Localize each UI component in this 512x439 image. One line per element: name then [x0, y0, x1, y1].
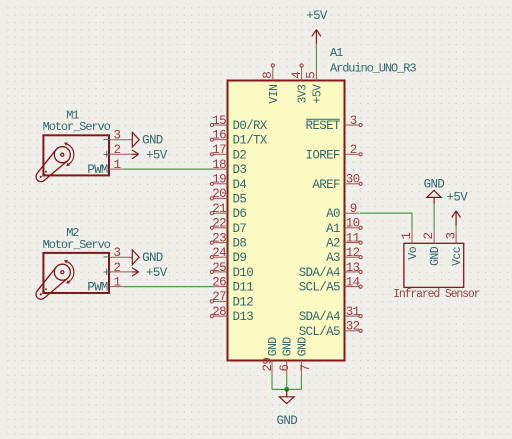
- pin 20 (D5) left side: [210, 187, 246, 206]
- svg-text:D8: D8: [233, 237, 247, 251]
- pin 24 (D9) left side: [210, 246, 246, 265]
- svg-text:+: +: [103, 266, 110, 280]
- pin 3 (-) of M1: [103, 129, 132, 148]
- svg-text:D13: D13: [233, 310, 254, 324]
- svg-text:D6: D6: [233, 207, 247, 221]
- svg-text:Vo: Vo: [407, 246, 420, 259]
- svg-text:15: 15: [212, 114, 226, 128]
- svg-text:VIN: VIN: [268, 85, 281, 104]
- servo arm screw dots (M1): [40, 171, 47, 178]
- svg-text:A1: A1: [326, 222, 340, 236]
- pin 31 (SDA/A4) right side: [299, 305, 363, 324]
- power symbol GND (bottom): [277, 389, 298, 428]
- svg-text:14: 14: [346, 275, 360, 289]
- pin 19 (D4) left side: [210, 173, 246, 192]
- pin 10 (A1) right side: [326, 217, 362, 236]
- svg-text:31: 31: [346, 305, 360, 319]
- pin 15 (D0/RX) left side: [210, 114, 268, 133]
- pin 8 (VIN) top side: [261, 64, 281, 104]
- svg-text:27: 27: [212, 290, 226, 304]
- svg-text:3: 3: [114, 129, 121, 143]
- wire +5V to pin 5: [315, 44, 317, 67]
- motor servo M2 body: [43, 253, 109, 293]
- power symbol +5V at M2 pin 2: [132, 266, 168, 280]
- svg-text:20: 20: [212, 187, 226, 201]
- svg-text:D3: D3: [233, 163, 247, 177]
- power symbol GND at sensor pin 2: [424, 177, 445, 204]
- pin 3 (RESET) right side: [306, 114, 363, 133]
- pin 25 (D10) left side: [210, 261, 253, 280]
- svg-text:GND: GND: [296, 337, 309, 357]
- svg-text:IOREF: IOREF: [306, 148, 340, 162]
- svg-text:Motor_Servo: Motor_Servo: [43, 238, 111, 252]
- svg-text:SCL/A5: SCL/A5: [299, 281, 340, 295]
- svg-text:RESET: RESET: [306, 119, 341, 133]
- pin 3 (-) of M2: [103, 246, 132, 265]
- svg-text:2: 2: [422, 233, 436, 240]
- svg-text:Arduino_UNO_R3: Arduino_UNO_R3: [330, 61, 416, 75]
- power symbol +5V at sensor pin 3: [447, 191, 469, 226]
- pin 1 (PWM) of M1: [87, 158, 124, 177]
- pin 2 (GND) of sensor: [422, 230, 442, 266]
- pin 6 (GND) bottom side: [278, 337, 295, 375]
- svg-text:PWM: PWM: [87, 163, 108, 177]
- svg-text:A0: A0: [326, 207, 340, 221]
- svg-text:12: 12: [346, 246, 360, 260]
- svg-text:2: 2: [350, 143, 357, 157]
- svg-text:19: 19: [212, 173, 226, 187]
- servo horn hub dot (M1): [61, 153, 64, 156]
- svg-text:GND: GND: [142, 134, 163, 148]
- svg-text:29: 29: [261, 358, 275, 372]
- svg-text:30: 30: [346, 173, 360, 187]
- servo arm (M2): [36, 267, 68, 299]
- svg-text:11: 11: [346, 231, 360, 245]
- pin 18 (D3) left side: [212, 158, 246, 177]
- svg-text:8: 8: [261, 72, 275, 79]
- pin 22 (D7) left side: [210, 217, 246, 236]
- svg-text:26: 26: [212, 275, 226, 289]
- svg-text:25: 25: [212, 261, 226, 275]
- svg-text:GND: GND: [282, 337, 295, 357]
- svg-text:GND: GND: [429, 246, 442, 266]
- wire M2 PWM to D11: [124, 286, 214, 288]
- svg-text:SDA/A4: SDA/A4: [299, 266, 340, 280]
- svg-text:2: 2: [114, 143, 121, 157]
- svg-text:+5V: +5V: [146, 266, 168, 280]
- svg-text:D11: D11: [233, 281, 254, 295]
- svg-text:Infrared Sensor: Infrared Sensor: [393, 288, 480, 301]
- wire GND to sensor pin 2: [433, 204, 435, 230]
- svg-text:GND: GND: [142, 251, 163, 265]
- pin 28 (D13) left side: [210, 305, 253, 324]
- pin 2 (+) of M1: [103, 143, 132, 162]
- svg-text:Vcc: Vcc: [451, 246, 464, 266]
- infrared sensor body: [404, 243, 464, 287]
- svg-text:A1: A1: [330, 46, 343, 60]
- svg-text:−: −: [103, 134, 110, 148]
- svg-text:Motor_Servo: Motor_Servo: [43, 120, 111, 134]
- svg-text:1: 1: [114, 158, 121, 172]
- svg-text:6: 6: [278, 365, 292, 372]
- svg-text:3: 3: [114, 246, 121, 260]
- svg-text:1: 1: [400, 233, 414, 240]
- svg-text:21: 21: [212, 202, 226, 216]
- servo horn circle (M1): [54, 147, 70, 163]
- servo horn hub dot (M2): [61, 271, 64, 274]
- svg-text:24: 24: [212, 246, 226, 260]
- power symbol +5V at M1 pin 2: [132, 148, 168, 162]
- pin 3 (Vcc) of sensor: [444, 230, 464, 266]
- IC A1 Arduino_UNO_R3 body: [228, 81, 345, 361]
- svg-text:GND: GND: [424, 177, 445, 191]
- pin 12 (A3) right side: [326, 246, 362, 265]
- wire GND bus horizontal: [272, 388, 301, 390]
- svg-text:13: 13: [346, 261, 360, 275]
- svg-text:10: 10: [346, 217, 360, 231]
- svg-text:SCL/A5: SCL/A5: [299, 325, 340, 339]
- svg-text:GND: GND: [267, 337, 280, 357]
- svg-text:A3: A3: [326, 251, 340, 265]
- wire M1 PWM to D3: [124, 168, 214, 170]
- pin 1 (PWM) of M2: [87, 275, 124, 294]
- svg-text:D5: D5: [233, 192, 247, 206]
- svg-text:PWM: PWM: [87, 281, 108, 295]
- svg-text:28: 28: [212, 305, 226, 319]
- pin 4 (3V3) top side: [290, 64, 310, 104]
- svg-text:GND: GND: [277, 414, 298, 428]
- svg-text:+: +: [103, 148, 110, 162]
- svg-text:23: 23: [212, 231, 226, 245]
- svg-text:1: 1: [114, 275, 121, 289]
- svg-text:5: 5: [305, 72, 319, 79]
- svg-text:22: 22: [212, 217, 226, 231]
- pin 17 (D2) left side: [210, 143, 246, 162]
- pin 27 (D12) left side: [210, 290, 253, 309]
- svg-text:D10: D10: [233, 266, 254, 280]
- svg-text:SDA/A4: SDA/A4: [299, 310, 340, 324]
- svg-text:D7: D7: [233, 222, 247, 236]
- svg-text:2: 2: [114, 261, 121, 275]
- servo rotation arc (M1): [64, 142, 74, 166]
- svg-text:+5V: +5V: [311, 84, 324, 104]
- junction GND node: [284, 387, 289, 392]
- pin 29 (GND) bottom side: [261, 337, 280, 375]
- svg-text:AREF: AREF: [312, 178, 340, 192]
- pin 7 (GND) bottom side: [296, 337, 312, 375]
- svg-text:D2: D2: [233, 148, 247, 162]
- pin 1 (Vo) of sensor: [400, 230, 420, 260]
- svg-text:A2: A2: [326, 237, 340, 251]
- wire GND bus right (pin 7): [300, 375, 302, 390]
- pin 5 (+5V) top side: [305, 67, 325, 104]
- svg-text:+5V: +5V: [146, 148, 168, 162]
- svg-text:+5V: +5V: [447, 191, 469, 205]
- servo horn circle (M2): [54, 264, 70, 280]
- svg-text:32: 32: [346, 320, 360, 334]
- power symbol GND at M1 pin 3: [132, 132, 163, 147]
- svg-text:D0/RX: D0/RX: [233, 119, 268, 133]
- svg-text:3V3: 3V3: [297, 84, 310, 104]
- pin 32 (SCL/A5) right side: [299, 320, 363, 339]
- svg-text:+5V: +5V: [306, 9, 328, 23]
- pin 9 (A0) right side: [326, 202, 359, 221]
- svg-text:D12: D12: [233, 295, 254, 309]
- power symbol GND at M2 pin 3: [132, 250, 163, 265]
- servo rotation arc (M2): [64, 260, 74, 284]
- svg-text:7: 7: [299, 365, 313, 372]
- svg-text:D4: D4: [233, 178, 247, 192]
- pin 2 (IOREF) right side: [306, 143, 363, 162]
- servo arm screw dots (M2): [40, 288, 47, 295]
- pin 26 (D11) left side: [212, 275, 253, 294]
- wire A0 to sensor Vo: [360, 213, 412, 230]
- pin 23 (D8) left side: [210, 231, 246, 250]
- wire +5V to sensor pin 3: [455, 226, 457, 230]
- svg-text:D1/TX: D1/TX: [233, 134, 268, 148]
- pin 30 (AREF) right side: [312, 173, 362, 192]
- wire GND bus left (pin 29): [271, 375, 273, 390]
- svg-text:4: 4: [290, 72, 304, 79]
- svg-text:18: 18: [212, 158, 226, 172]
- pin 14 (SCL/A5) right side: [299, 275, 363, 294]
- pin 16 (D1/TX) left side: [210, 129, 268, 148]
- pin 21 (D6) left side: [210, 202, 246, 221]
- svg-text:3: 3: [444, 233, 458, 240]
- svg-text:16: 16: [212, 129, 226, 143]
- svg-text:3: 3: [350, 114, 357, 128]
- pin 2 (+) of M2: [103, 261, 132, 280]
- svg-text:−: −: [103, 251, 110, 265]
- svg-text:D9: D9: [233, 251, 247, 265]
- pin 13 (SDA/A4) right side: [299, 261, 363, 280]
- wire GND bus middle (pin 6): [286, 375, 288, 390]
- svg-text:9: 9: [350, 202, 357, 216]
- servo arm (M1): [36, 150, 68, 182]
- pin 11 (A2) right side: [326, 231, 362, 250]
- power symbol +5V (top): [306, 9, 328, 44]
- svg-text:17: 17: [212, 143, 226, 157]
- motor servo M1 body: [43, 135, 109, 175]
